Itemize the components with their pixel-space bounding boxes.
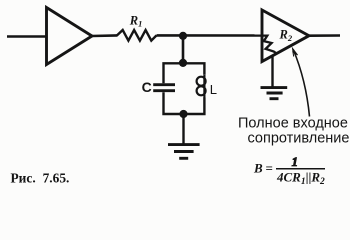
svg-text:7.65.: 7.65. <box>43 170 70 185</box>
svg-text:сопротивление: сопротивление <box>248 131 350 147</box>
svg-text:C: C <box>142 79 152 95</box>
wire output <box>309 34 340 37</box>
op-amp U1 <box>47 8 93 65</box>
annotation arrow <box>293 48 310 116</box>
wire node down to tank <box>182 36 185 63</box>
inductor L <box>197 75 206 98</box>
resistor R1 <box>117 30 157 41</box>
wire tank top bar <box>164 63 205 83</box>
formula B = 1/(4CR1||R2) <box>253 154 325 187</box>
wire tank bottom bar <box>164 92 205 114</box>
op-amp U2 <box>262 10 309 62</box>
svg-text:R1: R1 <box>129 13 143 28</box>
wire tank to ground <box>182 114 184 144</box>
wire input <box>7 35 47 38</box>
ground (tank) <box>168 145 200 159</box>
capacitor C <box>153 85 175 91</box>
svg-text:=: = <box>266 160 273 175</box>
svg-text:Рис.: Рис. <box>11 170 36 185</box>
ground (U2) <box>261 88 288 99</box>
node dot tank top <box>179 59 187 67</box>
wire U1 output <box>92 34 118 37</box>
svg-text:Полное входное: Полное входное <box>238 116 348 132</box>
svg-text:4CR1||R2: 4CR1||R2 <box>276 170 325 188</box>
svg-text:1: 1 <box>292 154 299 169</box>
resistor R2 squiggle <box>262 36 277 54</box>
node junction dot main <box>179 32 187 40</box>
svg-text:L: L <box>210 82 217 97</box>
node dot tank bottom <box>179 110 187 118</box>
wire U2 to ground <box>271 56 273 87</box>
svg-text:B: B <box>253 160 263 175</box>
wire R1 to U2 <box>157 34 263 37</box>
